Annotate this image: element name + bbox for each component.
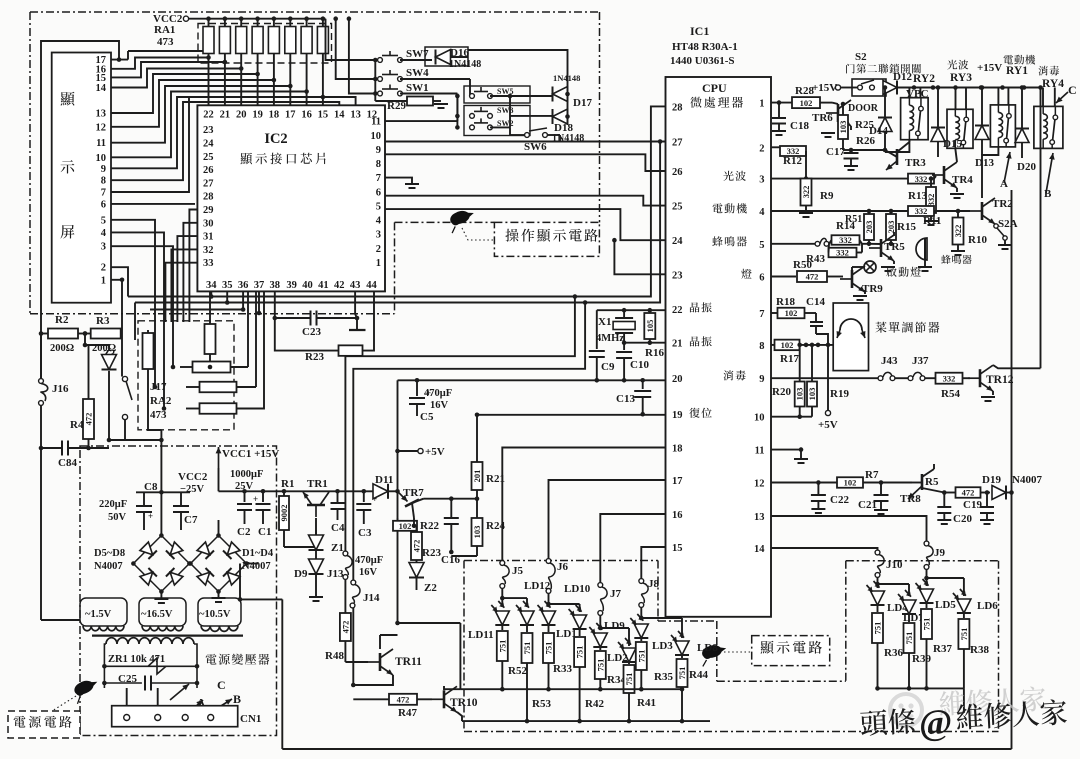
menu regulator box 菜单调节器 <box>833 303 868 371</box>
svg-text:11: 11 <box>755 446 765 457</box>
svg-text:22: 22 <box>672 305 683 316</box>
winding ~10.5V <box>198 598 241 626</box>
wire IC1 pin20 line <box>398 379 666 381</box>
switch SW5 <box>464 86 530 103</box>
svg-text:SW6: SW6 <box>524 141 547 153</box>
svg-text:LD2: LD2 <box>607 652 628 664</box>
svg-text:R47: R47 <box>398 707 417 719</box>
svg-text:220μF: 220μF <box>99 499 127 510</box>
wire LED bus row2 bottom <box>462 720 710 722</box>
wire VCC2 rail drop to switches <box>326 19 376 60</box>
svg-text:RA2: RA2 <box>150 395 172 407</box>
varistor ZR1 symbol <box>148 658 166 674</box>
svg-text:D17: D17 <box>573 97 592 109</box>
svg-text:10: 10 <box>371 131 382 142</box>
svg-text:LD9: LD9 <box>604 620 625 632</box>
wire IC2 left pins down <box>189 210 197 323</box>
capacitor C9 <box>596 310 598 349</box>
svg-text:RY3: RY3 <box>950 72 972 84</box>
svg-text:16V: 16V <box>430 400 449 411</box>
svg-text:38: 38 <box>270 280 281 291</box>
wire IC2 pin11 to switch matrix <box>385 120 457 122</box>
svg-text:18: 18 <box>672 444 683 455</box>
svg-text:25: 25 <box>672 202 683 213</box>
capacitor C4 <box>337 491 339 502</box>
capacitor C5 470uF 16V <box>415 378 420 383</box>
wire pin38 down <box>274 291 276 318</box>
transistor TR9 <box>840 266 865 292</box>
svg-text:23: 23 <box>203 125 214 136</box>
svg-text:332: 332 <box>915 174 928 184</box>
resistor RA2 elem h3 <box>200 403 237 414</box>
svg-text:9: 9 <box>759 374 764 385</box>
wire IC1 pin11 ground <box>771 449 801 451</box>
switch S2 box <box>852 79 886 96</box>
resistor R41col 751 <box>628 662 630 664</box>
wire left verticals into RA2 <box>121 330 123 340</box>
svg-text:J7: J7 <box>610 588 622 600</box>
capacitor C19cap <box>986 493 988 507</box>
wire IC2 pin5 to IC1 pin24 <box>385 209 666 240</box>
capacitor C21 <box>880 483 882 495</box>
wire bus2 drop to rail B <box>353 303 585 581</box>
svg-text:102: 102 <box>785 308 798 318</box>
svg-text:R50: R50 <box>793 259 812 271</box>
jumper J5 <box>500 561 505 566</box>
svg-text:43: 43 <box>350 280 361 291</box>
svg-text:14: 14 <box>96 83 107 94</box>
switch SW6 <box>525 133 530 138</box>
transistor TR11 <box>345 661 368 663</box>
svg-text:R14: R14 <box>836 220 855 232</box>
svg-text:A: A <box>1000 178 1008 190</box>
wire bus pin36 <box>150 291 243 309</box>
svg-text:25: 25 <box>203 152 214 163</box>
resistor R48 body <box>344 599 346 613</box>
lamp 启动灯 <box>864 261 876 273</box>
relay RY2 <box>901 98 929 140</box>
svg-text:30: 30 <box>203 218 214 229</box>
svg-text:2: 2 <box>759 143 764 154</box>
svg-text:4MHz: 4MHz <box>596 333 624 344</box>
svg-text:B: B <box>1044 188 1052 200</box>
resistor RA1 element 2 <box>224 19 226 27</box>
LED LD11 <box>495 611 509 625</box>
svg-text:@: @ <box>918 701 954 743</box>
svg-text:26: 26 <box>203 165 214 176</box>
LED LD1 pair feed <box>546 602 551 607</box>
wire IC1 pin5 蜂鸣器 line <box>771 243 815 245</box>
switch contact beside Z3 <box>122 376 127 381</box>
label 电源变压器 <box>206 654 270 665</box>
svg-text:4: 4 <box>376 216 382 227</box>
wire SW rows to right column <box>400 59 432 61</box>
switch SW2 <box>470 125 475 130</box>
svg-text:R1: R1 <box>281 478 294 490</box>
resistor RA1 element 7 <box>306 19 308 27</box>
capacitor C13 <box>642 380 644 389</box>
svg-text:12: 12 <box>96 122 107 133</box>
resistor R13h 332 on pin3 line <box>908 174 934 184</box>
wire IC1 pin3 光波 line <box>771 178 908 180</box>
svg-text:16: 16 <box>301 110 312 121</box>
svg-text:751: 751 <box>873 622 883 635</box>
diode D18 1N4148 <box>553 109 568 124</box>
svg-text:LD3: LD3 <box>652 640 673 652</box>
jumper J7 <box>598 583 603 588</box>
wire IC2 pin10 to IC1 pin27 (SW6 line) <box>385 141 666 143</box>
svg-text:103: 103 <box>807 388 817 401</box>
svg-text:751: 751 <box>544 642 554 655</box>
LED LD5 <box>920 589 934 603</box>
svg-text:1: 1 <box>376 258 381 269</box>
svg-text:20: 20 <box>236 110 247 121</box>
svg-text:203: 203 <box>864 221 874 234</box>
hand pointer to 显示电路 <box>698 642 729 667</box>
svg-text:RY1: RY1 <box>1006 65 1028 77</box>
svg-text:6: 6 <box>759 273 764 284</box>
winding ~16.5V <box>139 598 186 626</box>
resistor R23v 472 <box>416 526 418 532</box>
LED LD4 feed <box>875 582 880 587</box>
svg-text:21: 21 <box>672 339 683 350</box>
svg-text:C17: C17 <box>826 146 845 158</box>
resistor RA2 elem v2 <box>205 324 216 354</box>
svg-text:J13: J13 <box>327 568 344 580</box>
svg-text:LD8: LD8 <box>697 642 718 654</box>
svg-text:3: 3 <box>376 230 381 241</box>
svg-text:C18: C18 <box>790 120 809 132</box>
jumper J10 <box>875 550 880 555</box>
svg-text:5: 5 <box>101 215 106 226</box>
svg-text:IC1: IC1 <box>690 24 709 38</box>
wire bus left horizontals <box>128 296 211 298</box>
wire +15V relay rail <box>898 87 1041 89</box>
node VCC1 +15V <box>218 447 220 468</box>
resistor R23 <box>275 318 339 351</box>
wire to IC1 pin23 <box>614 240 665 274</box>
svg-text:−25V: −25V <box>180 484 204 495</box>
svg-text:J14: J14 <box>363 592 380 604</box>
svg-text:322: 322 <box>801 186 811 199</box>
svg-text:103: 103 <box>838 121 848 134</box>
node +5V stub <box>398 450 418 452</box>
svg-text:R39: R39 <box>912 653 931 665</box>
resistor R53col 751 <box>526 625 528 632</box>
svg-text:LD5: LD5 <box>935 599 956 611</box>
svg-text:Z2: Z2 <box>424 582 437 594</box>
capacitor C22 <box>817 483 819 495</box>
svg-text:28: 28 <box>203 192 214 203</box>
ground bridge1 center <box>160 592 162 599</box>
svg-text:29: 29 <box>203 205 214 216</box>
svg-text:13: 13 <box>350 110 361 121</box>
svg-text:103: 103 <box>795 388 805 401</box>
svg-text:751: 751 <box>624 673 634 686</box>
svg-text:472: 472 <box>340 621 350 634</box>
svg-text:31: 31 <box>203 232 214 243</box>
svg-text:R48: R48 <box>325 650 344 662</box>
svg-text:R42: R42 <box>585 698 604 710</box>
wire RY4 contact down to bottom right <box>1011 190 1013 749</box>
wire pin43 to ground <box>354 291 356 314</box>
wire bottom ground rail <box>281 599 283 749</box>
wire TR11 collector loop <box>395 621 400 626</box>
svg-text:19: 19 <box>672 410 683 421</box>
svg-text:6: 6 <box>101 199 106 210</box>
wire TR7 collector line <box>451 498 477 500</box>
resistor R16 105 <box>649 310 651 312</box>
wire IC1 pin10 <box>771 416 812 418</box>
svg-text:21: 21 <box>220 110 231 121</box>
svg-text:102: 102 <box>844 478 857 488</box>
wire LED bus row1 <box>460 688 600 690</box>
resistor network RA2 dashed box J17 <box>138 321 234 430</box>
wire IC1 pin1 <box>771 102 792 104</box>
svg-text:203: 203 <box>886 221 896 234</box>
svg-text:R41: R41 <box>637 697 656 709</box>
switch SW3 <box>464 106 530 136</box>
svg-text:R28: R28 <box>795 85 814 97</box>
svg-text:N4007: N4007 <box>1012 474 1042 486</box>
wire TR6 collector to relay RY2 coil <box>885 140 909 152</box>
svg-text:R3: R3 <box>96 315 110 327</box>
resistor R13 vertical <box>926 187 936 213</box>
switch arrows A B C <box>170 684 189 700</box>
svg-text:SW3: SW3 <box>497 106 513 115</box>
resistor R7 102 <box>837 477 863 488</box>
LED LD4 <box>871 591 885 605</box>
diode D9 <box>315 550 317 559</box>
wire left rail J16 <box>40 334 42 379</box>
wire +5V rail vertical <box>397 380 399 491</box>
svg-text:751: 751 <box>595 659 605 672</box>
svg-text:C3: C3 <box>358 527 372 539</box>
svg-text:16: 16 <box>672 510 683 521</box>
svg-text:751: 751 <box>522 642 532 655</box>
svg-text:751: 751 <box>904 632 914 645</box>
svg-text:N4007: N4007 <box>94 561 123 572</box>
svg-text:15: 15 <box>318 110 329 121</box>
svg-text:470μF: 470μF <box>355 555 383 566</box>
wire TR11 emitter <box>353 608 393 685</box>
resistor R15 203 <box>889 209 894 214</box>
svg-text:20: 20 <box>672 374 683 385</box>
svg-text:2: 2 <box>101 263 106 274</box>
svg-text:322: 322 <box>953 225 963 238</box>
diode D15 <box>937 88 939 128</box>
svg-text:472: 472 <box>412 540 422 553</box>
LED LD12d <box>520 611 534 625</box>
wire verticals display pins3-5 down to RA2 <box>111 220 155 330</box>
wire IC2 pin9 to IC1 pin26 <box>385 154 666 171</box>
svg-text:1000μF: 1000μF <box>230 469 263 480</box>
svg-text:J43: J43 <box>881 355 898 367</box>
svg-text:J37: J37 <box>912 355 929 367</box>
svg-text:28: 28 <box>672 102 683 113</box>
svg-text:332: 332 <box>839 235 852 245</box>
label 电动机 RY1 <box>1004 55 1036 65</box>
LED LD8 <box>675 641 689 655</box>
relay RY1 <box>990 105 1015 147</box>
svg-text:11: 11 <box>96 138 106 149</box>
label 光波 RY3 <box>947 60 968 70</box>
capacitor C16 <box>424 498 452 500</box>
svg-text:C10: C10 <box>630 359 649 371</box>
resistor R44 751 <box>681 655 683 658</box>
svg-text:R9: R9 <box>820 190 834 202</box>
svg-text:36: 36 <box>238 280 249 291</box>
resistor R35 751 <box>640 638 642 641</box>
hand pointer to 操作显示电路 <box>446 207 478 233</box>
ground bridge2 <box>218 592 220 598</box>
svg-text:472: 472 <box>397 695 410 705</box>
svg-text:D13: D13 <box>975 157 994 169</box>
svg-text:105: 105 <box>645 320 655 333</box>
svg-text:C2: C2 <box>237 526 251 538</box>
resistor R54 332 <box>936 373 963 384</box>
jumper J6 <box>546 559 551 564</box>
svg-text:8: 8 <box>376 159 381 170</box>
svg-text:RA1: RA1 <box>154 24 175 36</box>
svg-text:SW1: SW1 <box>406 82 429 94</box>
wire IC1 pin19 line <box>477 414 666 416</box>
wire IC1 pin4 电动机 line <box>771 210 970 212</box>
svg-text:13: 13 <box>754 512 765 523</box>
svg-text:SW4: SW4 <box>406 67 429 79</box>
resistor RA1 element 4 <box>257 19 259 27</box>
resistor R51 203 <box>867 209 872 214</box>
svg-text:R7: R7 <box>865 469 879 481</box>
svg-text:751: 751 <box>497 640 507 653</box>
resistor R47 472 <box>353 698 390 700</box>
display panel 显示屏 <box>52 53 111 303</box>
svg-text:TR10: TR10 <box>450 697 478 709</box>
svg-text:VCC2: VCC2 <box>178 471 208 483</box>
svg-text:RY4: RY4 <box>1042 78 1064 90</box>
wire right LED bus <box>878 687 964 689</box>
arrow A to RY1 contact <box>1004 152 1010 183</box>
resistor R17 102 <box>775 340 800 351</box>
svg-text:D20: D20 <box>1017 161 1036 173</box>
svg-text:7: 7 <box>101 188 106 199</box>
svg-text:X1: X1 <box>598 316 611 328</box>
svg-text:R53: R53 <box>532 698 551 710</box>
svg-text:R18: R18 <box>776 296 795 308</box>
svg-text:332: 332 <box>926 194 936 207</box>
svg-text:~10.5V: ~10.5V <box>199 609 231 620</box>
power circuit dash-dot frame <box>80 446 277 736</box>
svg-text:R38: R38 <box>970 644 989 656</box>
resistor RA1 element 3 <box>240 19 242 27</box>
label box 显示电路 <box>752 636 830 666</box>
label box 电源电路 <box>8 711 80 738</box>
svg-text:D19: D19 <box>982 474 1001 486</box>
svg-text:2: 2 <box>376 244 381 255</box>
LED LD5 feed <box>924 576 929 581</box>
svg-text:+15V: +15V <box>977 62 1002 74</box>
svg-text:102: 102 <box>800 98 813 108</box>
svg-text:S2A: S2A <box>998 218 1018 230</box>
svg-text:C20: C20 <box>953 513 972 525</box>
svg-text:473: 473 <box>150 409 167 421</box>
svg-text:LD10: LD10 <box>564 583 591 595</box>
capacitor C18 <box>778 103 780 117</box>
svg-text:9: 9 <box>101 164 106 175</box>
svg-text:R10: R10 <box>968 234 987 246</box>
resistor R42col 751 <box>579 629 581 636</box>
svg-text:472: 472 <box>84 413 94 426</box>
svg-text:R12: R12 <box>783 155 802 167</box>
resistor R10 322 <box>956 209 961 214</box>
diode D16 1N4148 <box>425 47 468 66</box>
svg-text:4: 4 <box>101 228 107 239</box>
svg-text:C19: C19 <box>963 499 982 511</box>
capacitor C1 <box>262 491 264 502</box>
transistor TR12 <box>968 365 993 391</box>
svg-text:+: + <box>148 511 153 521</box>
svg-text:R35: R35 <box>654 671 673 683</box>
resistor RA2 elem v1 <box>143 333 154 369</box>
svg-text:1: 1 <box>759 99 764 110</box>
wire display pins to IC2 top pins 14 13 12 <box>111 102 339 180</box>
relay RY3 <box>947 109 973 148</box>
svg-text:34: 34 <box>206 280 217 291</box>
svg-text:+5V: +5V <box>818 419 838 431</box>
capacitor C20 <box>943 493 945 507</box>
svg-text:13: 13 <box>96 109 107 120</box>
LED LD9 <box>598 626 603 631</box>
svg-text:D15: D15 <box>943 138 962 150</box>
svg-text:22: 22 <box>203 110 214 121</box>
relay RY4 <box>1034 106 1063 148</box>
svg-text:200Ω: 200Ω <box>50 343 74 354</box>
wire IC1 pin18 line to J5 <box>502 448 665 561</box>
connector CN1 <box>112 706 238 727</box>
svg-text:R11: R11 <box>923 215 941 227</box>
wire VCC2 rail <box>189 18 326 20</box>
svg-text:D1~D4: D1~D4 <box>242 548 274 559</box>
svg-text:R54: R54 <box>941 388 960 400</box>
svg-text:39: 39 <box>286 280 297 291</box>
svg-text:102: 102 <box>781 340 794 350</box>
svg-text:10: 10 <box>754 413 765 424</box>
svg-text:751: 751 <box>636 650 646 663</box>
svg-text:R16: R16 <box>645 347 664 359</box>
wire RA2 right verticals to VCC2 node <box>247 291 249 367</box>
resistor R12 332 <box>771 146 780 148</box>
wire IC1 pin21 line <box>624 342 665 344</box>
wire R24 bottom <box>451 555 477 557</box>
svg-text:R19: R19 <box>830 388 849 400</box>
svg-text:R52: R52 <box>508 665 527 677</box>
svg-text:41: 41 <box>318 280 329 291</box>
resistor RA2 elem h2 <box>200 382 237 393</box>
transistor TR10 <box>432 686 457 712</box>
svg-text:10: 10 <box>96 153 107 164</box>
primary loop ZR1 C25 <box>104 644 106 688</box>
wire +15V node <box>218 468 220 491</box>
svg-text:4: 4 <box>759 207 765 218</box>
svg-text:R4: R4 <box>70 419 84 431</box>
arrow B to RY4 contact <box>1046 153 1053 193</box>
svg-text:CN1: CN1 <box>240 713 261 725</box>
wire bus1 drop to rail A <box>345 297 575 552</box>
svg-text:D11: D11 <box>375 474 393 486</box>
jumper J9 <box>924 541 929 546</box>
svg-text:C22: C22 <box>830 494 849 506</box>
diode D14 <box>884 88 886 118</box>
